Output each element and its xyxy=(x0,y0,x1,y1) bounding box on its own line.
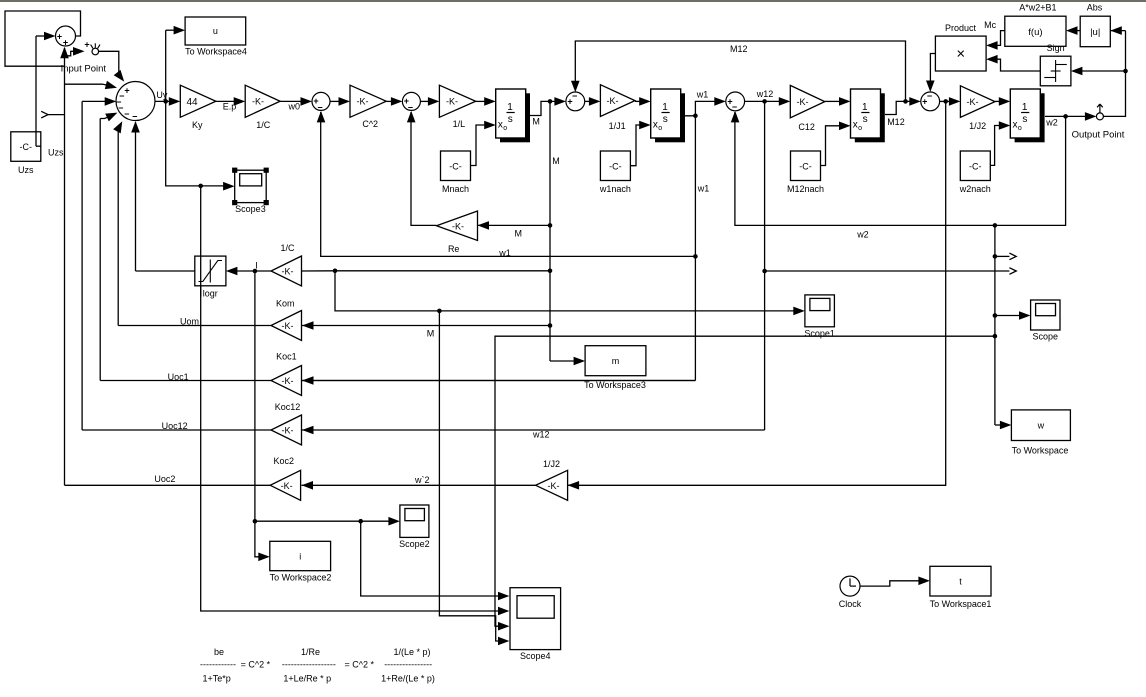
svg-text:-C-: -C- xyxy=(799,161,812,171)
svg-text:+: + xyxy=(63,38,68,48)
svg-text:|u|: |u| xyxy=(1090,27,1100,38)
svg-text:To Workspace4: To Workspace4 xyxy=(185,46,247,56)
svg-text:u: u xyxy=(213,26,218,36)
svg-text:i: i xyxy=(299,551,301,561)
svg-text:be: be xyxy=(214,647,224,657)
svg-text:-K-: -K- xyxy=(282,321,294,331)
svg-text:Scope1: Scope1 xyxy=(804,328,835,338)
svg-text:1/Re: 1/Re xyxy=(301,647,320,657)
svg-text:w1: w1 xyxy=(697,183,710,193)
svg-text:I: I xyxy=(255,260,258,270)
svg-text:w1: w1 xyxy=(498,248,511,258)
svg-text:Uoc12: Uoc12 xyxy=(162,421,188,431)
svg-text:Mc: Mc xyxy=(984,20,996,30)
svg-text:w2nach: w2nach xyxy=(959,184,991,194)
svg-text:-C-: -C- xyxy=(20,142,33,152)
svg-text:−: − xyxy=(317,103,322,113)
svg-text:-K-: -K- xyxy=(452,222,464,232)
svg-text:Scope2: Scope2 xyxy=(399,539,430,549)
svg-text:x: x xyxy=(498,120,503,131)
svg-text:= C^2 *: = C^2 * xyxy=(241,659,271,669)
svg-text:1+Le/Re * p: 1+Le/Re * p xyxy=(283,673,331,683)
svg-text:1: 1 xyxy=(862,102,868,113)
svg-text:1/J2: 1/J2 xyxy=(969,121,986,131)
svg-text:w1nach: w1nach xyxy=(599,184,631,194)
svg-text:M12: M12 xyxy=(730,44,748,54)
svg-text:w2: w2 xyxy=(1045,117,1058,127)
svg-text:M: M xyxy=(515,229,523,239)
svg-text:Clock: Clock xyxy=(839,599,862,609)
svg-text:s: s xyxy=(1022,114,1027,125)
svg-text:Koc12: Koc12 xyxy=(275,402,301,412)
svg-text:−: − xyxy=(124,109,129,119)
svg-text:To Workspace2: To Workspace2 xyxy=(270,572,332,582)
svg-text:w12: w12 xyxy=(532,430,550,440)
svg-text:w: w xyxy=(1037,420,1045,430)
svg-text:+: + xyxy=(124,85,129,95)
svg-text:Uzs: Uzs xyxy=(18,165,34,175)
svg-text:f(u): f(u) xyxy=(1028,27,1042,38)
svg-text:-K-: -K- xyxy=(797,97,809,107)
svg-text:−: − xyxy=(572,91,577,101)
svg-text:Scope: Scope xyxy=(1033,332,1059,342)
svg-text:----------------: ---------------- xyxy=(384,659,432,669)
svg-text:+: + xyxy=(57,31,62,41)
svg-text:1/(Le * p): 1/(Le * p) xyxy=(393,647,430,657)
svg-text:Uoc1: Uoc1 xyxy=(168,372,189,382)
svg-text:1: 1 xyxy=(1022,102,1028,113)
svg-text:Uy: Uy xyxy=(156,90,167,100)
svg-text:M: M xyxy=(427,329,435,339)
svg-text:x: x xyxy=(653,120,658,131)
svg-text:1/C: 1/C xyxy=(280,243,295,253)
svg-text:Uoc2: Uoc2 xyxy=(154,474,175,484)
svg-text:Koc1: Koc1 xyxy=(276,351,297,361)
svg-text:E.p: E.p xyxy=(223,101,237,111)
svg-text:------------------: ------------------ xyxy=(282,659,336,669)
svg-text:44: 44 xyxy=(186,97,198,108)
svg-text:s: s xyxy=(663,114,668,125)
svg-text:------------: ------------ xyxy=(200,659,236,669)
svg-text:Product: Product xyxy=(945,23,977,33)
svg-text:-K-: -K- xyxy=(281,481,293,491)
svg-text:M12nach: M12nach xyxy=(787,184,824,194)
svg-text:-K-: -K- xyxy=(282,376,294,386)
svg-text:w`2: w`2 xyxy=(414,475,430,485)
svg-text:−: − xyxy=(927,91,932,101)
svg-text:To Workspace3: To Workspace3 xyxy=(584,380,646,390)
svg-text:-C-: -C- xyxy=(609,161,622,171)
svg-text:M12: M12 xyxy=(887,117,905,127)
svg-text:1/C: 1/C xyxy=(256,120,271,130)
svg-text:o: o xyxy=(503,125,507,132)
svg-text:Koc2: Koc2 xyxy=(273,456,294,466)
svg-text:Mnach: Mnach xyxy=(442,184,469,194)
svg-text:1+Re/(Le * p): 1+Re/(Le * p) xyxy=(381,673,435,683)
svg-text:logr: logr xyxy=(203,289,218,299)
svg-text:−: − xyxy=(408,103,413,113)
svg-text:o: o xyxy=(858,125,862,132)
svg-text:o: o xyxy=(1018,125,1022,132)
svg-text:-K-: -K- xyxy=(252,97,264,107)
svg-text:w0: w0 xyxy=(288,102,301,112)
svg-text:-K-: -K- xyxy=(607,96,619,106)
svg-text:Uom: Uom xyxy=(180,316,199,326)
svg-text:−: − xyxy=(732,102,737,112)
svg-text:C12: C12 xyxy=(798,122,815,132)
svg-text:M: M xyxy=(532,116,540,126)
svg-text:s: s xyxy=(863,114,868,125)
svg-text:o: o xyxy=(658,125,662,132)
svg-text:Ky: Ky xyxy=(192,120,203,130)
svg-text:Scope4: Scope4 xyxy=(520,651,551,661)
svg-text:w1: w1 xyxy=(696,89,709,99)
svg-text:w12: w12 xyxy=(756,89,774,99)
svg-text:To Workspace1: To Workspace1 xyxy=(930,599,992,609)
svg-text:x: x xyxy=(853,120,858,131)
svg-text:1+Te*p: 1+Te*p xyxy=(203,673,231,683)
svg-text:1: 1 xyxy=(662,102,668,113)
svg-text:Output Point: Output Point xyxy=(1072,129,1125,140)
svg-text:−: − xyxy=(118,103,123,113)
svg-text:Scope3: Scope3 xyxy=(235,204,266,214)
svg-text:Uzs: Uzs xyxy=(48,147,64,157)
svg-text:1/J2: 1/J2 xyxy=(543,459,560,469)
svg-text:-K-: -K- xyxy=(967,97,979,107)
svg-text:−: − xyxy=(132,111,137,121)
svg-text:1/J1: 1/J1 xyxy=(609,121,626,131)
svg-text:-K-: -K- xyxy=(548,481,560,491)
svg-text:w2: w2 xyxy=(856,229,869,239)
svg-text:M: M xyxy=(552,156,560,166)
svg-text:-K-: -K- xyxy=(357,97,369,107)
svg-text:Kom: Kom xyxy=(276,298,295,308)
svg-text:-K-: -K- xyxy=(282,426,294,436)
svg-text:Sign: Sign xyxy=(1047,43,1065,53)
svg-text:-K-: -K- xyxy=(282,267,294,277)
svg-text:m: m xyxy=(612,356,620,366)
svg-text:Re: Re xyxy=(448,244,460,254)
svg-text:1: 1 xyxy=(507,102,513,113)
svg-text:1/L: 1/L xyxy=(453,119,466,129)
svg-text:= C^2 *: = C^2 * xyxy=(345,659,375,669)
svg-text:Abs: Abs xyxy=(1087,3,1103,13)
svg-text:+: + xyxy=(84,39,89,49)
svg-text:s: s xyxy=(508,114,513,125)
svg-text:A*w2+B1: A*w2+B1 xyxy=(1019,3,1056,13)
svg-text:×: × xyxy=(956,46,965,63)
svg-text:To Workspace: To Workspace xyxy=(1012,445,1069,455)
svg-text:x: x xyxy=(1013,120,1018,131)
svg-text:-C-: -C- xyxy=(449,161,462,171)
svg-text:-K-: -K- xyxy=(446,97,458,107)
svg-text:Input Point: Input Point xyxy=(61,64,107,75)
svg-text:C^2: C^2 xyxy=(362,119,378,129)
svg-text:-C-: -C- xyxy=(969,161,982,171)
